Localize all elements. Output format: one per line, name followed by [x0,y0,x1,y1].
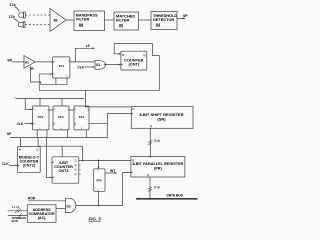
svg-text:Q: Q [75,163,77,167]
link FF3 Q to FF4 D [69,109,74,111]
svg-text:Q: Q [75,168,77,172]
svg-text:86: 86 [54,19,58,23]
output arrow SP [177,14,188,19]
CLK label row4 [2,162,9,166]
svg-text:CLK: CLK [17,122,24,126]
svg-text:19: 19 [86,44,90,48]
wire CNT1 Q down right feedback [152,56,159,91]
branch up arrow 19 [75,44,95,62]
svg-text:TR: TR [29,67,34,71]
CNT3 left pin tick [51,162,53,164]
svg-text:FF5: FF5 [97,178,103,182]
svg-text:FF1: FF1 [59,64,65,68]
svg-text:(AC): (AC) [38,216,47,220]
svg-text:FF2: FF2 [38,115,44,119]
svg-text:(PR): (PR) [154,167,163,171]
matched filter 90 [114,12,139,30]
PR Q bus down to data bus [148,177,160,200]
AC input bus 1 [8,205,28,213]
amplifier 86 [50,9,66,32]
wire FF4 to shift register clock [89,114,131,124]
dashed wire from 17a [26,14,50,16]
svg-text:G2: G2 [66,205,70,209]
svg-text:R: R [19,147,22,151]
svg-text:Q: Q [143,53,146,57]
svg-text:BUS: BUS [12,219,18,223]
svg-text:FIG. 3: FIG. 3 [89,217,102,222]
svg-text:D: D [132,107,135,111]
svg-text:14 bit: 14 bit [12,205,20,209]
CNT2 R riser [20,138,22,147]
CLK arrow to CNT2 [9,165,18,167]
svg-text:CLK: CLK [77,65,84,69]
svg-text:Q: Q [150,124,153,128]
long feedback wire y90 [39,74,159,91]
CNT3 clock feed wire [46,138,52,178]
AC input bus 2 [8,213,28,223]
row3 clock line [16,97,84,99]
wire comparator to FF1 [35,61,53,63]
address comparator AC [27,205,56,223]
drop to FF5 [98,161,100,169]
FF2 bottom drop [46,130,48,138]
gate G2 [66,198,76,212]
flip-flop FF3 [53,106,69,130]
CLK arrow to FF2 [24,123,32,125]
wire G1 to counter CNT1 [104,64,121,66]
CNT2 Q riser [37,138,39,147]
shift register SR [131,107,193,129]
svg-text:DATA BUS: DATA BUS [167,193,184,197]
FF5 bottom wire to G2 output line [98,191,100,205]
CNT1 feedback loop Q to R [114,44,152,56]
CLK label row2 [77,65,84,69]
drop to FF2 top [39,98,41,106]
branch to shift register clock [86,91,132,107]
wire matched filter to threshold detector [139,19,151,21]
svg-text:FF3: FF3 [58,115,64,119]
bandpass filter 88 [74,11,105,31]
counter CNT3 [52,157,81,183]
flip-flop FF2 [33,106,50,130]
leader 17b [14,19,19,22]
svg-text:8 bit: 8 bit [154,185,160,189]
FIG label [89,217,102,222]
flip-flop FF4 [74,106,89,130]
svg-text:G1: G1 [96,63,100,67]
drop to FF2 D [25,98,33,110]
counter CNT2 [18,147,41,173]
FF5 Q arrow INT [105,169,117,174]
svg-text:FF4: FF4 [79,115,85,119]
wire CLK to gate [85,66,95,68]
threshold detector 94 [151,12,177,30]
transducer 17a [19,12,26,18]
svg-text:90: 90 [119,22,123,27]
svg-text:ROR: ROR [28,196,36,200]
wire bandpass to matched filter [105,19,115,21]
counter CNT1 [121,51,147,70]
svg-text:INT: INT [110,169,115,173]
svg-text:88: 88 [79,22,84,27]
svg-text:SP: SP [183,14,188,18]
transducer 17b label [9,15,16,19]
svg-text:A1: A1 [25,60,29,64]
ROR wire to G2 [29,200,66,202]
svg-text:(SR): (SR) [157,117,166,122]
CLK label row3 [17,122,24,126]
FF3 bottom drop [67,130,69,138]
ROR label [28,196,36,200]
flip-flop FF5 [94,169,105,192]
AC output to G2 [56,208,66,210]
svg-text:R: R [122,53,125,57]
CNT2 Q wire to row4 line [38,146,83,160]
transducer 17b [18,22,25,28]
svg-text:Q: Q [147,173,150,177]
svg-text:Q: Q [36,147,39,151]
wire SP to comparator [12,61,25,63]
svg-text:8 bit: 8 bit [154,139,160,143]
FF2 bottom-left drop [36,130,38,138]
drop to FF3 top [61,98,63,106]
row3 reset line [10,124,107,138]
input label SP [7,58,12,62]
SP label at reset line [7,132,12,136]
FF1 bottom-left pin drop [55,78,57,84]
gate G1 [95,60,106,69]
wire amp to bandpass filter [66,19,74,21]
svg-text:Q: Q [75,159,77,163]
dashed wire from 17b [25,24,49,26]
flip-flop FF1 [53,57,70,78]
wire FF1 Q to gate G1 [70,61,95,63]
svg-text:17a: 17a [10,3,17,7]
svg-text:Q: Q [75,172,77,176]
FF4 bottom drop [85,130,87,138]
svg-text:FILTER: FILTER [76,17,90,22]
link FF2 Q to FF3 D [49,109,53,111]
svg-text:CNT3: CNT3 [59,169,69,173]
data bus [136,193,198,200]
svg-text:SP: SP [7,132,12,136]
comparator A1 [24,56,35,72]
drop to CNT3 top [61,146,63,157]
TR feedback wire [31,66,68,84]
parallel register PR [131,157,185,178]
svg-text:8-BIT PARALLEL REGISTER: 8-BIT PARALLEL REGISTER [132,162,183,166]
svg-text:CLK: CLK [2,162,9,166]
row4 data line to PR [79,160,131,162]
svg-text:(CNT): (CNT) [129,62,140,67]
G2 output wire to PR clock [76,173,131,206]
transducer 17a label [10,3,17,7]
SR Q bus down to PR [148,128,160,157]
leader 17a [15,7,20,12]
svg-text:(CNT2): (CNT2) [23,163,36,167]
